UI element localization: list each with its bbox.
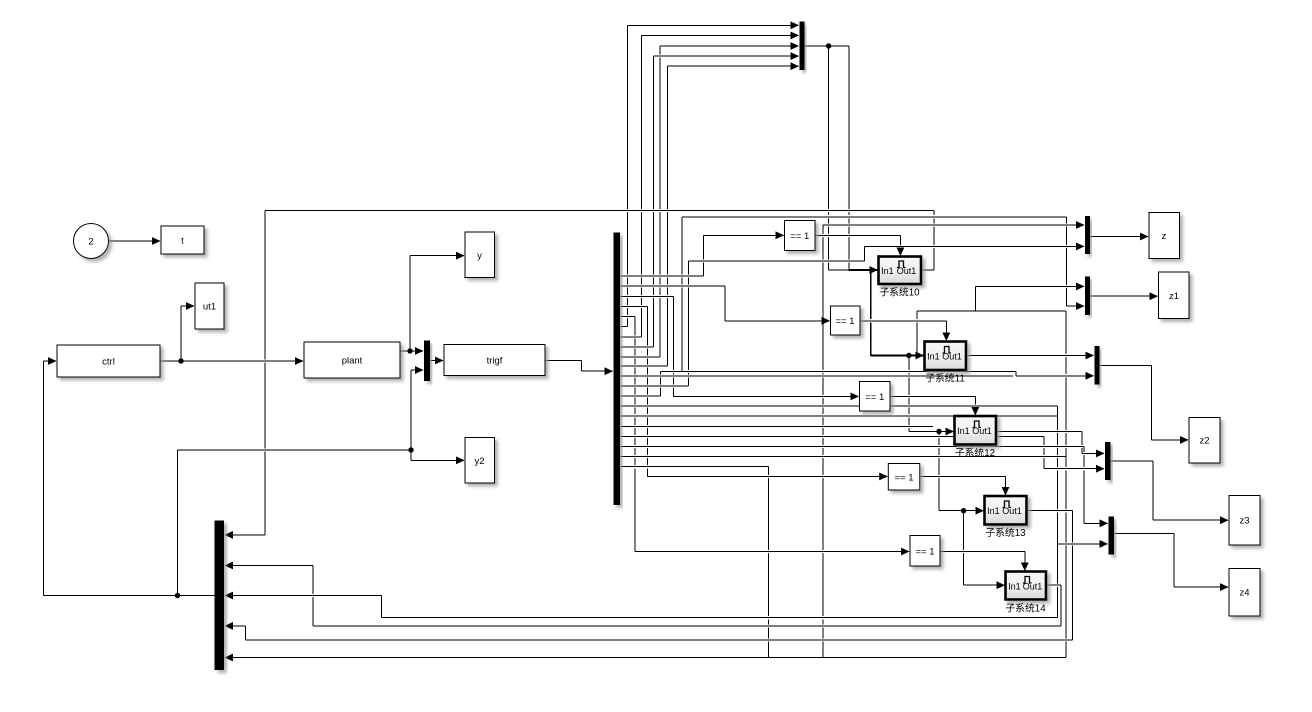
- svg-text:子系统13: 子系统13: [985, 526, 1026, 539]
- svg-text:In1: In1: [987, 506, 1000, 516]
- svg-text:In1: In1: [927, 352, 940, 362]
- svg-text:plant: plant: [342, 356, 363, 367]
- svg-text:Out1: Out1: [897, 266, 917, 276]
- svg-text:子系统10: 子系统10: [879, 286, 920, 299]
- svg-text:== 1: == 1: [915, 547, 934, 558]
- svg-text:子系统11: 子系统11: [925, 372, 965, 385]
- svg-text:In1: In1: [957, 426, 970, 436]
- svg-text:In1: In1: [881, 266, 894, 276]
- svg-text:2: 2: [88, 237, 93, 248]
- svg-text:Out1: Out1: [972, 426, 992, 436]
- svg-text:== 1: == 1: [865, 392, 884, 403]
- svg-text:z1: z1: [1169, 291, 1179, 302]
- svg-text:z: z: [1162, 231, 1167, 242]
- svg-text:== 1: == 1: [835, 316, 854, 327]
- svg-text:Out1: Out1: [1002, 506, 1022, 516]
- svg-text:Out1: Out1: [1023, 582, 1043, 592]
- svg-text:Out1: Out1: [942, 352, 962, 362]
- svg-text:ctrl: ctrl: [102, 357, 115, 368]
- svg-text:子系统12: 子系统12: [955, 446, 995, 459]
- svg-text:ut1: ut1: [203, 302, 216, 313]
- svg-text:trigf: trigf: [487, 356, 503, 367]
- svg-text:子系统14: 子系统14: [1005, 602, 1046, 615]
- svg-text:== 1: == 1: [894, 473, 913, 484]
- svg-text:y: y: [477, 251, 482, 262]
- svg-text:t: t: [181, 236, 184, 247]
- svg-text:z3: z3: [1239, 516, 1249, 527]
- svg-text:z4: z4: [1239, 588, 1249, 599]
- svg-text:== 1: == 1: [790, 231, 809, 242]
- svg-text:y2: y2: [474, 456, 484, 467]
- svg-text:z2: z2: [1199, 436, 1209, 447]
- svg-text:In1: In1: [1008, 582, 1021, 592]
